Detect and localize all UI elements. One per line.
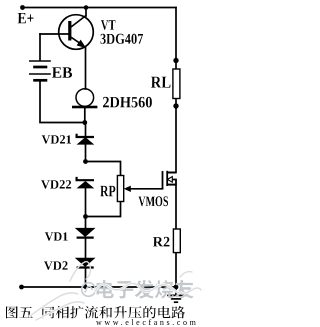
label R2 xyxy=(153,237,170,246)
label VD2 xyxy=(44,261,68,270)
wire VD21 to node B xyxy=(85,144,87,162)
watermark signature swirls xyxy=(30,262,201,320)
label RL xyxy=(151,77,170,88)
zener diode VD21 xyxy=(77,134,94,144)
wire RP bottom to node C xyxy=(86,202,121,217)
node dot E+ terminal xyxy=(20,5,25,10)
ground xyxy=(167,295,185,302)
node dot RL bottom xyxy=(173,103,178,108)
wire battery bottom lead to node A xyxy=(40,81,85,123)
wire VD2 to bottom rail xyxy=(85,269,87,287)
node dot VD2 bottom rail junction xyxy=(84,285,88,289)
wire ground stub xyxy=(175,287,177,295)
label 2DH560 xyxy=(103,97,152,107)
wire node B to RP top xyxy=(86,162,121,176)
diode VD1 xyxy=(76,228,94,237)
wire bottom rail xyxy=(22,286,177,288)
VMOS body arrow xyxy=(167,177,172,183)
node dot collector junction xyxy=(84,5,89,10)
node dot bottom-left terminal xyxy=(19,285,24,290)
battery EB xyxy=(29,61,51,80)
label VT xyxy=(101,20,115,29)
label 3DG407 xyxy=(101,34,144,44)
wire node A to VD21 xyxy=(85,123,87,137)
wire base wire battery to transistor xyxy=(40,33,68,35)
wire node C to VD1 xyxy=(85,217,87,229)
node A dot xyxy=(82,120,87,125)
label VD21 xyxy=(42,135,71,143)
wire RP wiper to VMOS gate xyxy=(130,188,163,190)
wire battery top lead xyxy=(39,34,41,60)
wire VD22 to node C xyxy=(85,188,87,217)
wire VMOS source down to R2 xyxy=(175,185,177,229)
wire collector stub to rail xyxy=(85,8,87,17)
wire RL bottom to VMOS drain xyxy=(175,99,177,173)
label VD1 xyxy=(45,232,68,240)
label VD22 xyxy=(41,180,71,188)
label E+ xyxy=(18,13,34,23)
wire 2DH560 bar to node A xyxy=(84,108,86,124)
node dot ground junction xyxy=(174,285,179,290)
wire R2 to bottom rail xyxy=(175,253,177,287)
node B dot xyxy=(83,159,88,164)
resistor R2 xyxy=(173,229,180,253)
diode VD2 xyxy=(76,258,94,267)
device 2DH560 circle and bar xyxy=(72,89,97,109)
transistor VT (NPN) xyxy=(59,15,94,50)
node dot RL top xyxy=(173,58,178,63)
node C dot xyxy=(83,214,88,219)
wire emitter down to 2DH560 xyxy=(85,48,87,90)
zener diode VD22 xyxy=(77,177,94,188)
watermark text dianzifashaoyou xyxy=(96,280,193,298)
wire top rail from E+ to right corner xyxy=(23,7,177,9)
watermark logo circle xyxy=(82,283,96,297)
label RP xyxy=(100,186,115,196)
label EB xyxy=(52,67,72,77)
resistor RL xyxy=(173,69,180,99)
RP wiper arrow xyxy=(124,186,131,192)
caption figure five xyxy=(6,306,185,319)
MOSFET VMOS xyxy=(163,171,177,189)
label VMOS xyxy=(139,196,168,206)
wire right vertical rail to RL top xyxy=(175,8,177,70)
svg-text:www.elecfans.com: www.elecfans.com xyxy=(96,318,198,327)
wire VD1 to VD2 xyxy=(85,239,87,259)
potentiometer RP xyxy=(117,176,123,202)
